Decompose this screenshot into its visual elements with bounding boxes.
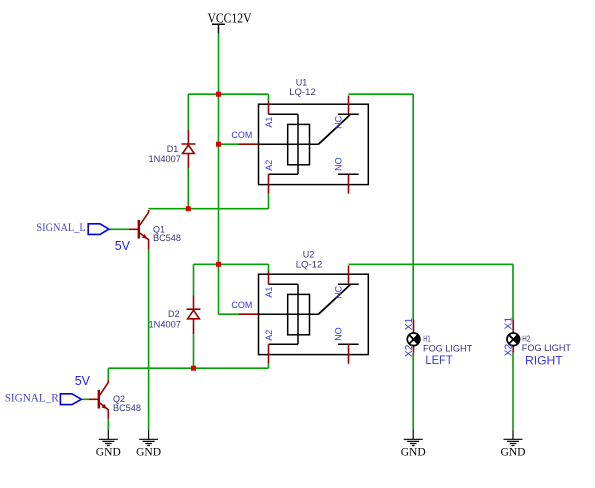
svg-text:NO: NO	[334, 327, 344, 341]
port SIGNAL_R	[60, 394, 81, 405]
wire VCC main vertical	[218, 34, 220, 315]
ground symbol GND Q2	[99, 430, 118, 446]
svg-text:COM: COM	[231, 130, 252, 141]
svg-text:H1: H1	[423, 334, 431, 344]
svg-text:1N4007: 1N4007	[149, 320, 181, 330]
svg-text:NC: NC	[334, 285, 344, 298]
svg-text:GND: GND	[401, 445, 426, 459]
svg-text:X1: X1	[504, 317, 515, 330]
wire top horizontal to U1 A1	[188, 94, 268, 101]
svg-text:NC: NC	[334, 115, 344, 128]
diode D1	[182, 130, 196, 168]
junction at VCC top wire	[216, 92, 221, 97]
svg-text:GND: GND	[96, 445, 121, 459]
wire lamp H1 to GND	[412, 353, 414, 430]
wire U1 NC to lamp H1	[349, 94, 414, 319]
svg-text:GND: GND	[501, 445, 526, 459]
wire lamp H2 to GND	[512, 353, 514, 430]
junction at D1 collector bus	[186, 206, 191, 211]
svg-text:X1: X1	[404, 317, 415, 330]
relay U2 pins	[239, 266, 349, 364]
svg-text:A2: A2	[264, 160, 274, 171]
svg-text:BC548: BC548	[113, 403, 141, 413]
svg-text:SIGNAL_L: SIGNAL_L	[36, 220, 85, 234]
wire Q1 emitter to GND	[148, 249, 150, 430]
svg-text:X2: X2	[504, 343, 515, 356]
transistor Q1	[129, 210, 149, 249]
wire U1 COM tap	[219, 143, 240, 145]
relay U1 pins	[239, 96, 349, 194]
svg-text:H2: H2	[522, 334, 530, 344]
junction at U2 top wire	[216, 262, 221, 267]
svg-text:RIGHT: RIGHT	[525, 353, 563, 367]
svg-text:FOG LIGHT: FOG LIGHT	[423, 343, 473, 353]
wire U2 top left	[194, 264, 269, 271]
wire Q2 collector bus	[108, 364, 268, 380]
svg-text:SIGNAL_R: SIGNAL_R	[5, 391, 59, 405]
wire Q1 collector bus	[149, 194, 269, 209]
transistor Q2	[89, 380, 109, 419]
svg-text:A1: A1	[264, 117, 274, 128]
ground symbol GND H1	[404, 430, 423, 446]
diode D2	[187, 296, 201, 335]
junction at U1 COM tap	[216, 142, 221, 147]
wire D2 upper lead	[193, 264, 195, 295]
svg-text:D2: D2	[168, 309, 180, 319]
wire U2 NC to lamp H2	[349, 264, 514, 319]
relay U1	[259, 104, 369, 184]
svg-text:5V: 5V	[115, 238, 131, 253]
svg-text:U2: U2	[303, 250, 315, 260]
svg-text:1N4007: 1N4007	[149, 154, 181, 164]
wire D1 lower to collector bus	[187, 168, 189, 208]
svg-text:D1: D1	[167, 144, 179, 154]
svg-text:X2: X2	[404, 344, 415, 357]
lamp H2	[507, 320, 520, 353]
ground symbol GND Q1	[139, 430, 158, 446]
svg-text:5V: 5V	[75, 373, 91, 388]
ground symbol GND H2	[504, 430, 523, 446]
emitter arrow Q1	[142, 234, 148, 239]
svg-text:GND: GND	[136, 445, 161, 459]
power symbol VCC12V	[212, 24, 225, 34]
svg-text:U1: U1	[296, 78, 308, 88]
svg-text:COM: COM	[231, 300, 252, 311]
junction at D2 collector bus	[191, 366, 196, 371]
wire port R to Q2 base	[82, 398, 88, 400]
wire D1 upper lead	[187, 94, 189, 130]
lamp H1	[407, 320, 420, 353]
wire U2 COM tap	[219, 313, 240, 315]
svg-text:NO: NO	[334, 157, 344, 171]
relay U2	[259, 274, 369, 354]
emitter arrow Q2	[102, 404, 108, 409]
svg-text:A2: A2	[264, 330, 274, 341]
svg-text:A1: A1	[264, 287, 274, 298]
svg-text:FOG LIGHT: FOG LIGHT	[522, 343, 572, 353]
port SIGNAL_L	[88, 224, 109, 235]
svg-text:VCC12V: VCC12V	[208, 11, 252, 26]
wire Q2 emitter to GND	[107, 419, 109, 430]
svg-text:LEFT: LEFT	[425, 353, 453, 367]
svg-text:BC548: BC548	[153, 233, 181, 243]
svg-text:LQ-12: LQ-12	[289, 87, 316, 97]
wire port L to Q1 base	[109, 228, 129, 230]
svg-text:LQ-12: LQ-12	[296, 259, 323, 269]
wire D2 lower to collector bus	[193, 334, 195, 368]
